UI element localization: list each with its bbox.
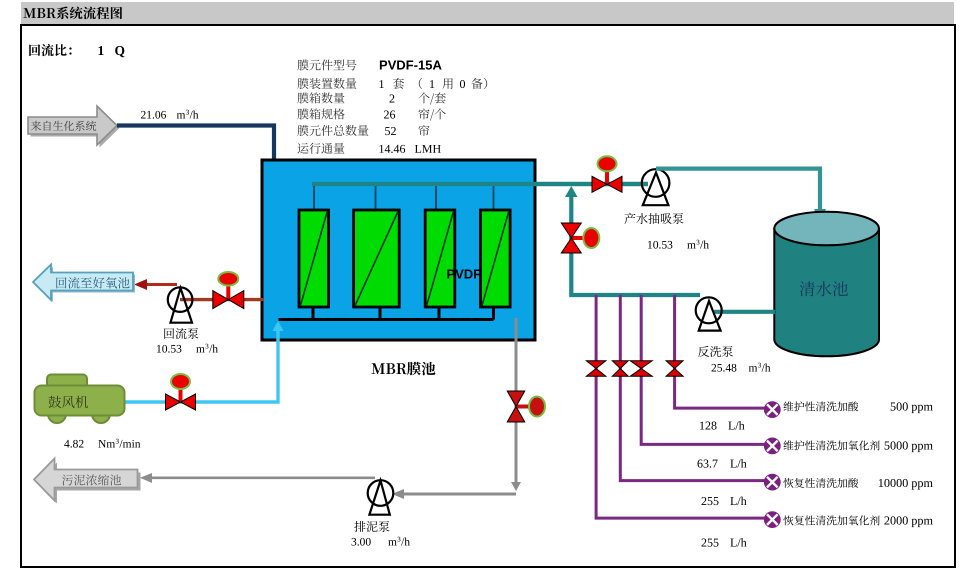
- dosing pipe maintenance acid: [675, 295, 765, 408]
- table value 2: [390, 95, 395, 103]
- table value 0 spare: [460, 80, 465, 88]
- module bottom stubs: [312, 307, 315, 320]
- dosing injection point maintenance oxidant: [764, 438, 781, 455]
- dosing pipe recovery oxidant: [596, 295, 764, 518]
- influent pipe arrowhead: [268, 162, 280, 173]
- backwash pipe from tank: [714, 310, 775, 314]
- dosing flow unit 2: [730, 459, 746, 467]
- backwash flow unit: [749, 366, 758, 371]
- table unit lian: [418, 125, 429, 136]
- influent flow unit: [177, 113, 186, 118]
- dosing ppm 1: [891, 402, 933, 413]
- table value 52: [385, 127, 396, 135]
- dosing ppm 2: [885, 441, 933, 452]
- module riser pipes: [313, 186, 315, 209]
- reflux pump symbol: [168, 287, 193, 322]
- dosing flow unit 4: [730, 538, 746, 546]
- reflux block arrow shadow: [35, 267, 135, 303]
- dosing ppm 4: [884, 516, 932, 527]
- sludge pump symbol: [368, 480, 394, 515]
- clean water inlet arrowhead: [814, 209, 826, 221]
- sludge block arrow to thickener: [34, 459, 138, 501]
- blower flow number: [64, 440, 83, 448]
- dosing flow 1: [700, 422, 716, 430]
- reflux block arrow to aerobic tank: [33, 265, 133, 301]
- clean water tank label: [800, 281, 848, 296]
- sludge pump flow unit: [388, 540, 397, 545]
- sludge pipe to thickener: [145, 476, 375, 479]
- table label row3: [297, 92, 344, 103]
- sludge pump flow number: [352, 538, 371, 546]
- blower body: [35, 375, 125, 424]
- MBR tank label: [371, 362, 435, 375]
- table label row2: [297, 78, 356, 89]
- dosing valve recovery acid: [612, 361, 628, 377]
- permeate valve: [592, 156, 622, 192]
- permeate pump label: [624, 213, 683, 224]
- backwash valve: [561, 223, 599, 253]
- dosing label 3: [783, 478, 858, 488]
- table value open paren: [419, 78, 422, 89]
- reflux valve: [213, 272, 244, 309]
- dosing valve maintenance oxidant: [630, 361, 652, 377]
- influent arrow text: [31, 121, 96, 131]
- air pipe arrowhead: [273, 321, 284, 331]
- sludge pipe from tank: [515, 318, 518, 485]
- dosing flow 3: [702, 497, 719, 505]
- permeate header pipe: [312, 182, 648, 186]
- influent block arrow from biochemical system: [28, 106, 117, 145]
- dosing injection point recovery oxidant: [764, 511, 781, 528]
- permeate pipe to pump: [535, 182, 648, 186]
- backwash pump symbol: [696, 297, 722, 330]
- title text MBR system flow diagram: [23, 7, 122, 20]
- table value LMH: [415, 145, 441, 153]
- reflux pump flow unit: [196, 347, 205, 352]
- MBR membrane tank: [262, 160, 535, 340]
- dosing pipe maintenance oxidant: [641, 295, 764, 444]
- influent block arrow shadow: [31, 109, 120, 148]
- reflux ratio value 1: [99, 46, 104, 55]
- sludge pipe arrowhead at pump: [392, 489, 404, 499]
- backwash pump label: [698, 346, 733, 357]
- sludge arrowhead at thickener: [140, 473, 152, 483]
- blower label: [49, 396, 89, 408]
- table value tao: [393, 78, 404, 89]
- backwash flow number: [712, 364, 737, 372]
- sludge valve: [507, 391, 545, 422]
- reflux pipe outlet to arrow: [145, 283, 177, 286]
- membrane module 2: [354, 210, 400, 307]
- aeration manifold: [279, 318, 494, 321]
- PVDF label: [447, 270, 480, 279]
- dosing flow 4: [702, 539, 719, 547]
- permeate pipe to clean water tank: [656, 169, 820, 212]
- influent flow number: [141, 111, 166, 119]
- sludge pipe to pump: [398, 493, 516, 496]
- dosing flow 2: [698, 460, 718, 468]
- table label row6: [298, 143, 345, 154]
- membrane module 3: [425, 210, 455, 307]
- backwash riser arrowhead: [565, 186, 578, 197]
- table value 26: [384, 111, 395, 119]
- dosing valve recovery oxidant: [586, 361, 606, 377]
- permeate flow number: [648, 241, 672, 249]
- reflux ratio value Q: [115, 46, 124, 57]
- reflux pipe dark red inlet: [180, 298, 264, 301]
- table value qty 1: [380, 80, 384, 88]
- label reflux ratio: [29, 44, 71, 56]
- influent pipe navy: [117, 126, 274, 164]
- table label row5: [297, 125, 368, 136]
- reflux pump flow number: [157, 345, 181, 353]
- table label row4: [297, 108, 344, 119]
- table unit lian/ge: [418, 108, 445, 120]
- table unit ge/tao: [418, 92, 445, 104]
- reflux pump label: [164, 328, 198, 339]
- table value 1 use: [430, 80, 434, 88]
- air pipe cyan: [124, 325, 278, 402]
- table background: [290, 57, 497, 157]
- sludge pump label: [354, 521, 389, 532]
- sludge arrow text: [62, 474, 121, 485]
- dosing injection point recovery acid: [764, 474, 781, 491]
- reflux arrowhead: [134, 279, 147, 290]
- dosing ppm 3: [879, 479, 933, 490]
- dosing pipe recovery acid: [620, 295, 764, 481]
- dosing valve maintenance acid: [666, 361, 683, 377]
- reflux arrow text: [56, 277, 129, 289]
- membrane module 1: [299, 210, 329, 307]
- permeate flow unit: [687, 243, 696, 248]
- title bar: [21, 2, 954, 24]
- dosing flow unit 3: [730, 497, 746, 505]
- dosing injection point maintenance acid: [764, 401, 781, 418]
- table value 14.46: [380, 145, 406, 153]
- table value PVDF-15A: [380, 61, 442, 70]
- table value yong: [442, 78, 452, 89]
- permeate suction pump symbol: [642, 169, 670, 205]
- dosing label 4: [783, 515, 879, 525]
- membrane module 4: [481, 210, 511, 307]
- air valve: [166, 374, 196, 410]
- dosing flow unit 1: [728, 421, 744, 429]
- blower flow unit: [98, 440, 115, 448]
- dosing label 2: [784, 440, 880, 450]
- backwash riser pipe: [571, 192, 700, 295]
- sludge block arrow shadow: [37, 463, 141, 504]
- dosing label 1: [784, 401, 859, 411]
- table value bei close paren: [471, 78, 487, 89]
- sludge pipe down arrowhead: [511, 482, 521, 491]
- table label row1: [297, 59, 356, 70]
- clean water tank cylinder: [774, 212, 879, 357]
